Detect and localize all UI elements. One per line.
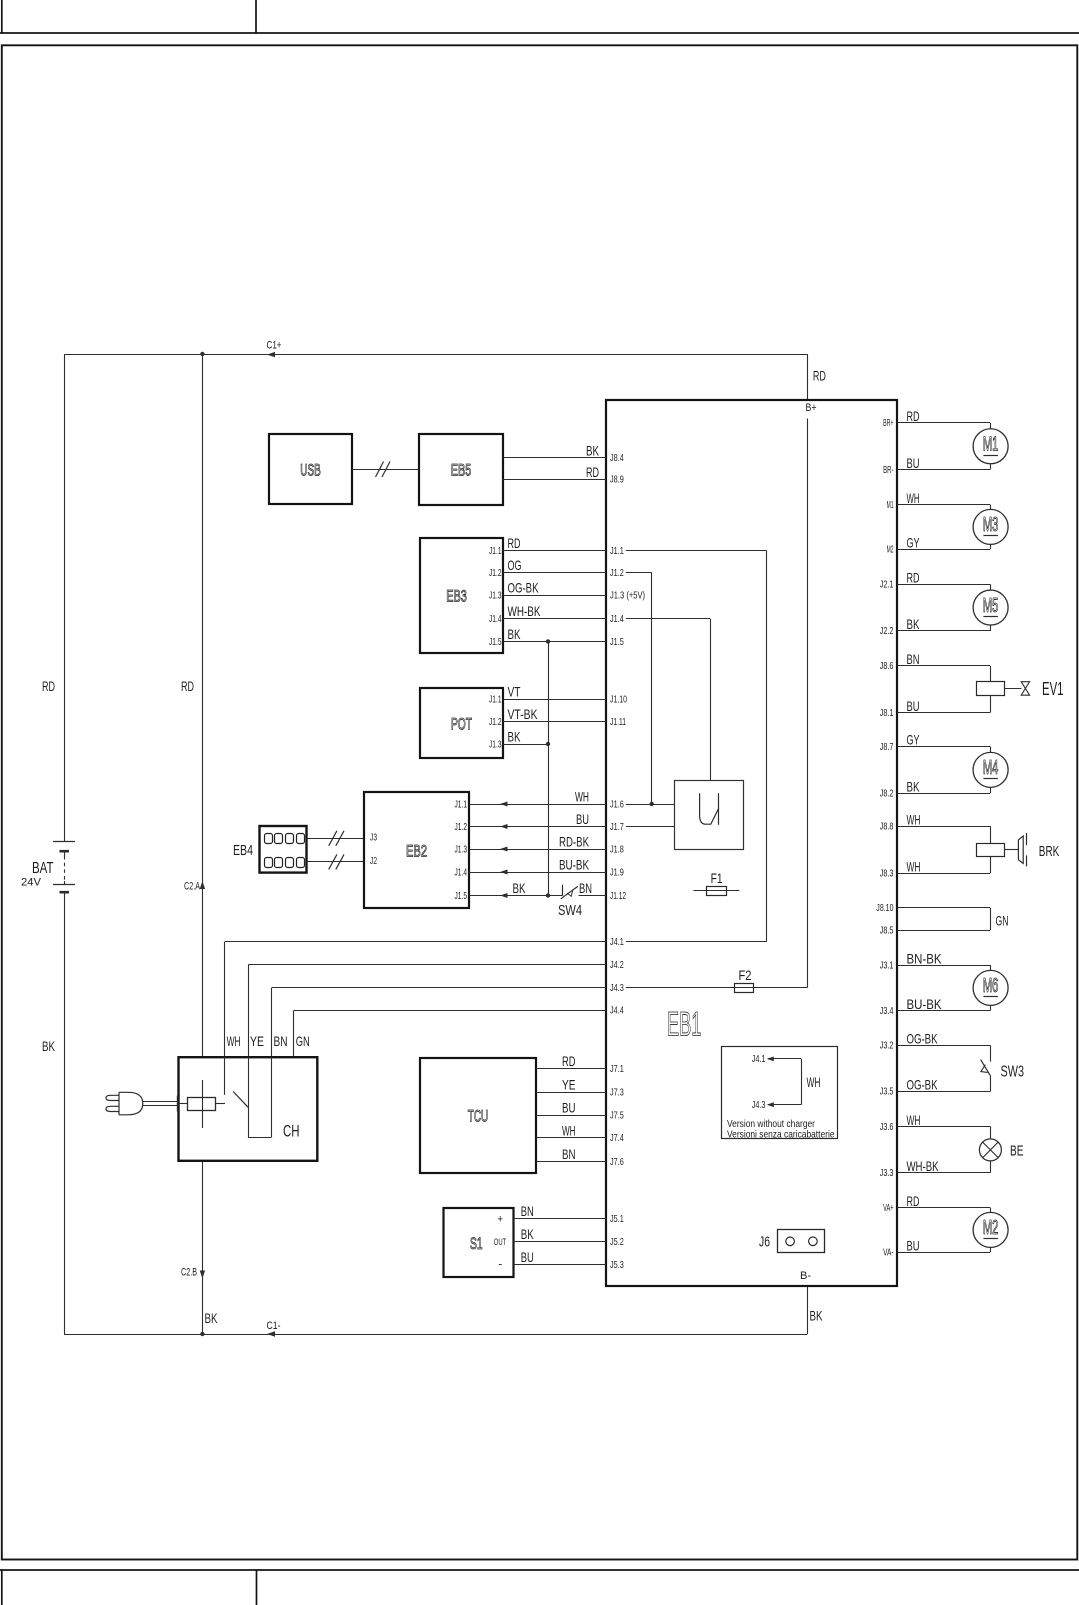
- svg-text:J3: J3: [370, 832, 377, 844]
- svg-text:M6: M6: [983, 975, 999, 997]
- svg-text:J1.1: J1.1: [455, 798, 468, 810]
- svg-text:BK: BK: [586, 442, 599, 458]
- svg-text:J3.2: J3.2: [880, 1040, 894, 1052]
- svg-text:J1.2: J1.2: [455, 821, 468, 833]
- svg-text:EB4: EB4: [233, 842, 253, 859]
- svg-text:GY: GY: [907, 732, 920, 748]
- svg-text:M2: M2: [983, 1217, 999, 1239]
- svg-text:24V: 24V: [21, 877, 42, 889]
- svg-text:B-: B-: [800, 1270, 811, 1282]
- svg-text:J1.12: J1.12: [610, 890, 626, 902]
- svg-text:GN: GN: [296, 1033, 310, 1049]
- svg-text:J8.2: J8.2: [880, 788, 894, 800]
- svg-text:J7.6: J7.6: [610, 1156, 624, 1168]
- svg-text:J2.2: J2.2: [880, 625, 894, 637]
- svg-text:C2.A: C2.A: [184, 881, 200, 893]
- svg-text:WH-BK: WH-BK: [508, 603, 541, 619]
- svg-text:WH: WH: [807, 1074, 821, 1090]
- svg-text:J1.6: J1.6: [610, 798, 624, 810]
- svg-text:J8.1: J8.1: [880, 707, 894, 719]
- svg-text:GY: GY: [907, 534, 920, 550]
- svg-text:VT: VT: [508, 683, 521, 699]
- svg-text:BU-BK: BU-BK: [907, 996, 943, 1012]
- svg-text:BK: BK: [513, 880, 526, 896]
- svg-text:J1.9: J1.9: [610, 866, 624, 878]
- svg-text:WH: WH: [575, 788, 589, 804]
- svg-text:J8.9: J8.9: [610, 473, 624, 485]
- svg-text:J1.10: J1.10: [610, 693, 627, 705]
- svg-text:VA+: VA+: [883, 1202, 893, 1214]
- svg-text:WH: WH: [227, 1033, 241, 1049]
- svg-text:J1.3 (+5V): J1.3 (+5V): [610, 589, 645, 601]
- svg-text:F1: F1: [711, 870, 723, 886]
- svg-text:BN: BN: [562, 1146, 576, 1162]
- svg-text:BRK: BRK: [1039, 843, 1060, 860]
- svg-text:GN: GN: [996, 912, 1009, 928]
- svg-text:RD: RD: [907, 408, 920, 424]
- svg-text:EB1: EB1: [667, 1005, 702, 1043]
- svg-text:BN: BN: [579, 880, 592, 896]
- svg-text:SW3: SW3: [1001, 1063, 1025, 1080]
- svg-text:J1.2: J1.2: [489, 716, 502, 728]
- svg-text:J8.8: J8.8: [880, 820, 894, 832]
- svg-text:WH: WH: [562, 1122, 576, 1138]
- svg-text:J1.2: J1.2: [489, 567, 502, 579]
- svg-text:WH: WH: [907, 858, 921, 874]
- svg-text:POT: POT: [451, 715, 472, 734]
- svg-text:J1.3: J1.3: [489, 589, 502, 601]
- svg-text:RD: RD: [813, 368, 826, 384]
- svg-text:OG-BK: OG-BK: [907, 1077, 938, 1093]
- svg-text:OG: OG: [508, 557, 522, 573]
- svg-text:VA-: VA-: [883, 1247, 894, 1259]
- svg-text:BU: BU: [907, 698, 920, 714]
- svg-text:J1.5: J1.5: [610, 636, 624, 648]
- svg-text:BE: BE: [1010, 1142, 1024, 1159]
- svg-text:YE: YE: [562, 1077, 576, 1093]
- svg-text:F2: F2: [739, 967, 752, 983]
- svg-text:J4.3: J4.3: [752, 1099, 766, 1111]
- svg-text:RD: RD: [586, 464, 599, 480]
- svg-text:M2: M2: [887, 544, 894, 556]
- svg-text:EB2: EB2: [406, 841, 427, 860]
- svg-text:-: -: [498, 1258, 502, 1270]
- svg-text:J1.4: J1.4: [610, 613, 624, 625]
- svg-text:J1.11: J1.11: [610, 716, 626, 728]
- svg-text:J3.5: J3.5: [880, 1086, 894, 1098]
- svg-text:RD-BK: RD-BK: [559, 833, 589, 849]
- svg-text:J3.6: J3.6: [880, 1121, 894, 1133]
- svg-text:J8.4: J8.4: [610, 452, 624, 464]
- svg-text:BK: BK: [42, 1038, 55, 1054]
- svg-text:BK: BK: [810, 1308, 823, 1324]
- svg-text:J1.3: J1.3: [489, 738, 502, 750]
- svg-text:J4.4: J4.4: [610, 1005, 624, 1017]
- svg-text:BU: BU: [562, 1099, 576, 1115]
- svg-text:BR+: BR+: [883, 417, 893, 429]
- svg-text:J1.2: J1.2: [610, 567, 624, 579]
- svg-text:TCU: TCU: [468, 1107, 489, 1126]
- svg-text:BN: BN: [907, 651, 920, 667]
- svg-text:J8.10: J8.10: [876, 902, 893, 914]
- svg-text:J2.1: J2.1: [880, 579, 894, 591]
- svg-text:RD: RD: [907, 569, 920, 585]
- svg-text:OG-BK: OG-BK: [907, 1031, 938, 1047]
- svg-text:WH: WH: [907, 1112, 921, 1128]
- svg-text:J2: J2: [370, 855, 377, 867]
- svg-text:RD: RD: [42, 678, 55, 694]
- svg-text:J4.3: J4.3: [610, 982, 624, 994]
- svg-text:J6: J6: [759, 1234, 770, 1250]
- svg-text:J1.3: J1.3: [455, 843, 468, 855]
- svg-text:J3.1: J3.1: [880, 959, 894, 971]
- svg-text:J8.3: J8.3: [880, 868, 894, 880]
- svg-text:BU: BU: [521, 1249, 534, 1265]
- svg-text:J7.4: J7.4: [610, 1132, 624, 1144]
- svg-text:EB3: EB3: [446, 587, 467, 606]
- svg-text:J5.2: J5.2: [610, 1236, 624, 1248]
- svg-text:BN: BN: [521, 1203, 534, 1219]
- svg-text:BU: BU: [907, 1237, 920, 1253]
- svg-text:Versioni senza caricabatterie: Versioni senza caricabatterie: [727, 1130, 835, 1141]
- svg-text:J8.7: J8.7: [880, 741, 894, 753]
- svg-text:SW4: SW4: [558, 902, 582, 919]
- svg-text:J8.6: J8.6: [880, 660, 894, 672]
- svg-text:BR-: BR-: [883, 464, 894, 476]
- svg-text:M5: M5: [983, 595, 999, 617]
- svg-text:Version without charger: Version without charger: [727, 1119, 816, 1130]
- svg-text:+: +: [498, 1213, 504, 1225]
- svg-text:B+: B+: [806, 402, 817, 414]
- svg-text:WH: WH: [907, 811, 921, 827]
- svg-text:BK: BK: [205, 1310, 218, 1326]
- svg-text:J4.1: J4.1: [752, 1053, 766, 1065]
- svg-text:C1+: C1+: [267, 340, 282, 352]
- svg-text:BAT: BAT: [32, 860, 54, 877]
- svg-text:BK: BK: [508, 626, 521, 642]
- svg-text:J3.3: J3.3: [880, 1167, 894, 1179]
- svg-text:C2.B: C2.B: [181, 1267, 197, 1279]
- svg-text:EV1: EV1: [1042, 679, 1064, 699]
- svg-text:J1.4: J1.4: [489, 613, 502, 625]
- svg-text:J7.3: J7.3: [610, 1087, 624, 1099]
- svg-text:J1.8: J1.8: [610, 843, 624, 855]
- svg-text:S1: S1: [470, 1234, 483, 1253]
- svg-text:J1.7: J1.7: [610, 821, 624, 833]
- svg-text:J7.5: J7.5: [610, 1109, 624, 1121]
- svg-text:BU: BU: [576, 811, 589, 827]
- svg-text:BK: BK: [907, 616, 920, 632]
- svg-text:M4: M4: [983, 757, 999, 779]
- svg-text:J1.5: J1.5: [489, 636, 502, 648]
- svg-text:J8.5: J8.5: [880, 924, 894, 936]
- svg-text:BK: BK: [508, 728, 521, 744]
- svg-text:J5.1: J5.1: [610, 1213, 624, 1225]
- svg-text:BK: BK: [907, 778, 920, 794]
- svg-text:OUT: OUT: [494, 1237, 507, 1247]
- svg-text:VT-BK: VT-BK: [508, 706, 538, 722]
- svg-text:M1: M1: [983, 433, 999, 455]
- svg-text:OG-BK: OG-BK: [508, 579, 539, 595]
- svg-text:BN-BK: BN-BK: [907, 950, 943, 966]
- svg-text:YE: YE: [250, 1033, 264, 1049]
- svg-text:WH: WH: [907, 490, 920, 506]
- svg-text:J1.4: J1.4: [455, 866, 468, 878]
- svg-text:C1-: C1-: [267, 1320, 281, 1332]
- svg-text:J1.1: J1.1: [489, 693, 502, 705]
- svg-text:J1.1: J1.1: [489, 545, 502, 557]
- svg-text:EB5: EB5: [451, 460, 472, 479]
- svg-text:USB: USB: [300, 460, 321, 479]
- svg-text:BN: BN: [274, 1033, 288, 1049]
- svg-text:J4.2: J4.2: [610, 959, 624, 971]
- svg-text:BU-BK: BU-BK: [559, 856, 589, 872]
- svg-text:J1.1: J1.1: [610, 545, 624, 557]
- svg-text:RD: RD: [508, 535, 521, 551]
- svg-text:J1.5: J1.5: [455, 890, 468, 902]
- svg-text:BU: BU: [907, 455, 920, 471]
- svg-text:CH: CH: [283, 1122, 300, 1141]
- svg-text:WH-BK: WH-BK: [907, 1158, 939, 1174]
- svg-text:BK: BK: [521, 1226, 534, 1242]
- svg-text:RD: RD: [181, 678, 194, 694]
- svg-text:RD: RD: [562, 1053, 576, 1069]
- svg-text:J7.1: J7.1: [610, 1063, 624, 1075]
- svg-text:J3.4: J3.4: [880, 1005, 894, 1017]
- svg-text:M3: M3: [983, 514, 999, 536]
- svg-text:RD: RD: [907, 1193, 920, 1209]
- svg-text:M1: M1: [887, 499, 894, 511]
- svg-text:J4.1: J4.1: [610, 936, 624, 948]
- svg-text:J5.3: J5.3: [610, 1259, 624, 1271]
